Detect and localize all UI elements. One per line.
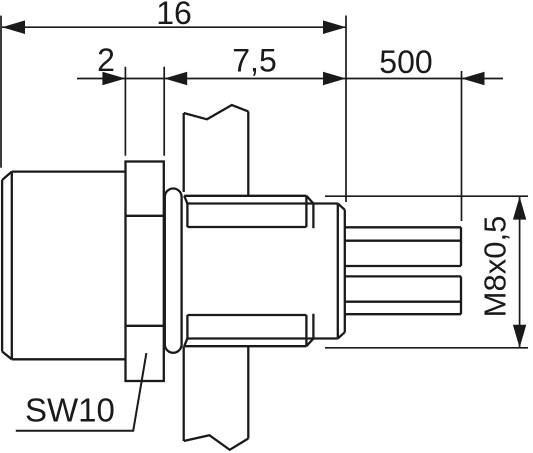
svg-text:SW10: SW10 bbox=[25, 392, 115, 429]
svg-text:16: 16 bbox=[156, 0, 192, 31]
svg-text:2: 2 bbox=[97, 42, 115, 78]
svg-text:M8x0,5: M8x0,5 bbox=[478, 216, 513, 318]
svg-text:500: 500 bbox=[379, 44, 432, 80]
svg-text:7,5: 7,5 bbox=[232, 43, 276, 79]
